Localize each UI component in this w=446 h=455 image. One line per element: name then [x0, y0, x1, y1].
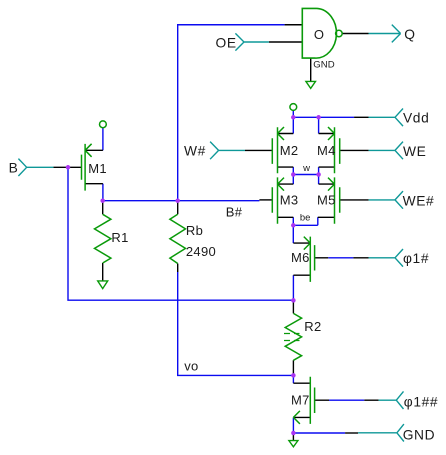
- svg-text:WE#: WE#: [403, 193, 435, 208]
- junction node B#/R1: [100, 198, 105, 203]
- port OE arrow: [235, 33, 269, 50]
- transistor M3 symbol: [272, 177, 284, 223]
- transistor M7 symbol: [293, 377, 314, 424]
- wire M1 drain to pin circle: [102, 128, 104, 151]
- wire node w: [293, 167, 318, 184]
- port WE arrow: [369, 142, 403, 160]
- svg-text:Rb: Rb: [186, 223, 203, 238]
- pin stub M3 gate: [259, 199, 272, 201]
- junction node M6 source/R2: [291, 298, 296, 303]
- wire M7 source to GND row: [292, 417, 294, 433]
- resistor R2 leads: [292, 300, 294, 375]
- svg-text:B: B: [9, 161, 19, 176]
- svg-text:R1: R1: [111, 230, 128, 245]
- NAND gate ground triangle: [306, 81, 316, 88]
- svg-text:M4: M4: [317, 143, 336, 158]
- svg-text:M6: M6: [291, 250, 310, 265]
- svg-text:vo: vo: [184, 359, 198, 374]
- wire M7 gate: [329, 399, 364, 401]
- svg-text:Q: Q: [404, 27, 415, 42]
- svg-text:2490: 2490: [186, 244, 216, 259]
- junction node B#/Rb: [175, 198, 180, 203]
- NAND gate U1 body: [302, 8, 336, 58]
- wire M6 source drop: [292, 275, 294, 300]
- resistor R2 zigzag: [285, 313, 301, 360]
- svg-text:M7: M7: [291, 392, 310, 407]
- resistor R1 zigzag: [95, 214, 111, 263]
- pin stub M5 gate to WE# port: [340, 199, 369, 201]
- resistor R1 leads: [102, 201, 104, 281]
- svg-text:w: w: [302, 163, 310, 174]
- svg-text:M3: M3: [280, 193, 299, 208]
- port GND arrow: [358, 424, 404, 441]
- transistor M5 drain/source leads: [318, 184, 335, 217]
- wire node be: [293, 217, 318, 243]
- junction node GND: [291, 431, 296, 436]
- wire GND row: [293, 432, 345, 434]
- transistor M1 drain/source leads: [85, 150, 103, 183]
- pin stub NAND output: [342, 33, 368, 35]
- pin stub M4 gate to WE port: [340, 149, 369, 151]
- svg-text:B#: B#: [226, 205, 243, 220]
- transistor M4 symbol: [328, 127, 340, 173]
- pin circle above M1: [100, 121, 107, 128]
- svg-text:WE: WE: [403, 144, 426, 159]
- svg-text:M2: M2: [280, 143, 299, 158]
- port WE# arrow: [369, 191, 403, 209]
- NAND gate U1 output bubble: [336, 30, 343, 37]
- wire net B# horizontal: [103, 200, 260, 202]
- pin stub NAND input 1: [285, 24, 303, 26]
- port B arrow: [18, 159, 53, 176]
- wire Vdd rail: [293, 110, 354, 133]
- svg-text:φ1#: φ1#: [403, 251, 429, 266]
- svg-text:W#: W#: [184, 144, 206, 159]
- ground symbol under R1: [98, 281, 108, 289]
- pin stub M7 to ground symbol: [292, 433, 294, 440]
- pin stub GND port row: [345, 432, 358, 434]
- svg-text:O: O: [314, 27, 324, 42]
- port phi1## arrow: [379, 391, 404, 409]
- junction node Vdd/M2: [291, 115, 296, 120]
- wire net OE->NAND top input (from B# bus): [178, 25, 285, 201]
- svg-text:R2: R2: [304, 319, 321, 334]
- junction node Vdd/M4: [316, 115, 321, 120]
- ground symbol under M7: [289, 441, 298, 447]
- transistor M1 symbol: [82, 144, 92, 191]
- resistor R2 dashed marks: [284, 334, 300, 341]
- svg-text:M1: M1: [88, 161, 107, 176]
- junction node w left: [291, 172, 296, 177]
- pin stub Vdd port: [354, 116, 368, 118]
- junction node w right: [316, 172, 321, 177]
- wire Rb bottom to vo row: [178, 272, 294, 375]
- transistor M2 symbol: [272, 127, 284, 173]
- wire vo to M7 drain: [292, 375, 294, 383]
- transistor M5 symbol: [328, 177, 340, 223]
- port Q arrow: [369, 25, 401, 43]
- junction node B/M1 gate: [66, 165, 71, 170]
- resistor Rb zigzag: [170, 214, 186, 263]
- port phi1# arrow: [369, 249, 404, 267]
- svg-text:M5: M5: [317, 193, 336, 208]
- transistor M7 drain/source leads: [293, 383, 310, 417]
- transistor M4 drain/source leads: [319, 134, 335, 168]
- transistor M6 drain/source leads: [293, 243, 310, 275]
- svg-text:GND: GND: [313, 59, 334, 70]
- pin stub NAND input 2: [269, 41, 302, 43]
- svg-text:OE: OE: [216, 35, 237, 50]
- resistor Rb leads: [177, 201, 179, 272]
- port W# arrow: [210, 142, 245, 160]
- pin stub port W# to M2 gate: [245, 149, 272, 151]
- transistor M3 drain/source leads: [278, 184, 294, 217]
- transistor M2 drain/source leads: [278, 134, 294, 168]
- pin stubs M7 gate row to phi1## port: [315, 399, 379, 401]
- svg-text:Vdd: Vdd: [403, 111, 429, 126]
- junction node be: [291, 223, 296, 228]
- wire M6 gate: [328, 257, 353, 259]
- svg-text:GND: GND: [403, 427, 435, 442]
- svg-text:be: be: [300, 213, 311, 224]
- pin stubs M6 gate row to phi1# port: [315, 257, 369, 259]
- pin stub port B to M1 gate: [53, 166, 81, 168]
- wire M1 source drop: [102, 184, 104, 201]
- junction node vo: [291, 373, 296, 378]
- pin circle Vdd: [290, 104, 297, 111]
- pin stub NAND ground: [310, 58, 312, 81]
- transistor M6 symbol: [304, 237, 315, 282]
- svg-text:φ1##: φ1##: [404, 394, 438, 409]
- wire net B vertical run to M6 source row: [68, 167, 293, 300]
- port Vdd arrow: [369, 109, 404, 127]
